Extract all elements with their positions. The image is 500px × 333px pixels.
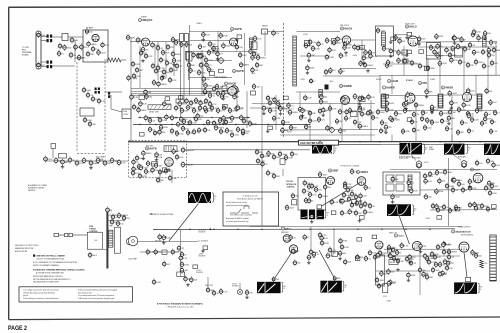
capacitor C23 [142,46,144,53]
capacitor C202 [443,204,445,211]
capacitor C136 [446,125,448,132]
test point diamond TP1 [218,57,224,63]
capacitor C36 [206,62,208,69]
capacitor C1212 [485,111,487,118]
junction [283,124,284,125]
svg-text:.0047: .0047 [430,68,436,70]
resistor R26 [305,42,307,49]
svg-text:4.7K: 4.7K [487,119,492,121]
resistor R36 [430,44,432,51]
width area capacitor [408,179,410,186]
resistor R21 [208,66,210,73]
resistor R107 [273,154,275,161]
capacitor C58 [398,49,400,56]
video area resistor [488,47,490,54]
IF part [176,63,178,70]
capacitor C83 [183,118,185,125]
capacitor C10 [83,87,85,94]
junction [459,141,460,142]
capacitor C110 [269,107,271,114]
stub [333,229,335,250]
IF part [167,44,169,51]
junction [357,229,358,230]
capacitor C96 [215,124,217,131]
RF input coil T1 [62,34,68,41]
resistor R152 [439,261,441,268]
capacitor C35 [205,57,207,64]
svg-text:SOUND: SOUND [188,150,195,152]
svg-text:100K: 100K [245,131,250,133]
junction [319,141,320,142]
IF vertical wire [165,42,167,78]
video amp area capacitor [159,129,161,136]
svg-text:.0047: .0047 [395,197,401,199]
svg-text:6AT8: 6AT8 [236,69,243,73]
svg-text:1MEG: 1MEG [418,105,424,107]
osc area box [219,69,224,73]
resistor R24 [253,51,255,58]
measurement note box [19,287,133,302]
svg-text:3RD PIX IF: 3RD PIX IF [340,25,350,27]
osc area resistor [202,31,204,38]
det wire [394,34,409,36]
osc wire [190,40,231,42]
junction [171,124,172,125]
svg-text:2.2K: 2.2K [121,162,126,164]
capacitor C5 [81,44,83,51]
capacitor C133 [413,127,415,134]
resistor R43 [221,93,223,100]
crt area ground [163,241,165,243]
svg-text:4.7K: 4.7K [428,181,433,183]
video amp area capacitor [180,116,182,123]
IF3 area ground [308,59,310,61]
box 470 [251,91,256,95]
svg-text:8.2K: 8.2K [431,262,436,264]
svg-text:2.2K: 2.2K [354,171,359,173]
capacitor C25 [172,36,174,43]
coil box L6 [332,39,337,45]
tube V4 converter [230,86,239,95]
video part [469,42,471,49]
crt area box [193,265,198,269]
vert afc area ground [339,257,341,259]
capacitor C178 [310,249,312,256]
sync2 area capacitor [484,116,486,123]
wire y210 [430,209,497,211]
wire [386,95,405,97]
balun core L1b [50,35,52,38]
B+ boost bus wire [153,228,455,231]
svg-text:FREQUENCY OF TEST POINTS: FREQUENCY OF TEST POINTS [15,245,38,247]
svg-text:.0047: .0047 [329,57,335,59]
video area resistor [473,29,475,36]
video amp area box [178,96,183,100]
oscillogram photo P10 [454,282,477,294]
wire [105,91,122,93]
svg-text:470K: 470K [405,131,410,133]
svg-text:.0047: .0047 [228,122,234,124]
svg-text:470K: 470K [184,264,189,266]
coil L12 [478,95,482,108]
capacitor C88 [243,118,245,125]
connecting wire [280,134,375,136]
vert osc area capacitor [344,183,346,190]
sync area ground [280,112,282,114]
video area resistor [418,36,420,43]
resistor R139 [452,187,454,194]
sync area ground [267,130,269,132]
sync2 area resistor [468,112,470,119]
capacitor C116 [329,105,331,112]
capacitor C48 [326,37,328,44]
sync area capacitor [320,93,322,100]
RF amp shield box [83,30,108,62]
tuner lead part [123,215,125,222]
capacitor C147 [145,168,147,175]
resistor R90 [381,119,383,126]
svg-text:.0047: .0047 [380,112,386,114]
video area ground [418,42,420,44]
vert osc area capacitor [342,198,344,205]
resistor R121 [369,203,371,210]
vert osc area ground [360,199,362,201]
svg-text:8.2K: 8.2K [371,97,376,99]
callout box P10 [466,277,471,281]
tube label V11 [382,86,385,89]
balun core L2a [47,61,49,64]
vertical wire [139,46,141,88]
section divider bus [128,141,500,143]
junction [229,117,230,118]
capacitor C173 [341,210,343,217]
svg-text:1MEG: 1MEG [146,153,152,155]
junction [261,229,262,230]
vert out area box [387,249,392,253]
capacitor C153 [291,151,293,158]
vertical stub [361,40,363,63]
connecting wire [154,46,156,65]
capacitor C168 [343,192,345,199]
capacitor C3 [71,37,73,44]
svg-text:2.2K: 2.2K [160,68,165,70]
oscillogram photo P4 [484,144,500,155]
capacitor C31 [153,79,155,86]
svg-text:VERT: VERT [429,147,433,149]
bracket P3 [466,144,467,153]
height control box [389,259,398,264]
svg-text:100K: 100K [401,52,406,54]
resistor R89 [354,119,356,126]
horiz part [448,254,450,261]
tube V23 vert out [412,241,421,250]
tuner box bottom dash [77,153,105,155]
vert out area capacitor [444,258,446,265]
vert osc area capacitor [349,208,351,215]
capacitor C101 [368,94,370,101]
coil L11 [439,95,443,107]
capacitor C218 [310,78,312,84]
svg-text:4.5MC: 4.5MC [430,79,436,81]
capacitor C119 [290,124,292,131]
svg-text:2.2K: 2.2K [444,121,449,123]
resistor R95 [431,119,433,126]
wire [121,59,126,61]
svg-text:470K: 470K [324,243,329,245]
capacitor C82 [171,114,173,121]
bracket P8 [343,282,344,292]
vert afc area capacitor [321,235,323,242]
svg-text:470K: 470K [427,256,432,258]
tuner lead part [117,220,119,227]
wire from bar [108,214,128,216]
junction [439,141,440,142]
connecting wire [299,92,301,108]
sync area capacitor [281,127,283,134]
balun core L2b [50,61,52,64]
balun core L1a [47,35,49,38]
oscillogram photo P8 [320,281,341,293]
IF part [157,65,159,72]
resistor R88 [367,110,369,117]
video area ground [484,37,486,39]
capacitor C6 [88,41,90,48]
source arrow 1 [208,228,212,230]
capacitor C34 [193,52,195,59]
diagonal lead P7 [274,250,294,280]
connecting wire [202,62,204,85]
tube callout hexagon V13 6CG7 [416,161,422,169]
video area capacitor [484,30,486,37]
diagonal lead P8 [319,250,335,278]
svg-text:CONTROL: CONTROL [286,187,294,189]
capacitor C19 [111,157,113,164]
vert osc area capacitor [324,184,326,191]
note bullet [33,255,35,257]
sound area capacitor [156,151,158,158]
svg-text:B+ SOURCE: B+ SOURCE [199,240,208,242]
connecting wire [370,100,372,141]
capacitor C53 [360,60,362,67]
connecting wire [309,112,311,141]
stub [310,227,312,250]
svg-text:.0047: .0047 [380,30,386,32]
resistor R93 [411,119,413,126]
svg-text:8.2K: 8.2K [276,118,281,120]
capacitor C181 [344,259,346,266]
capacitor C63 [446,47,448,54]
resistor R133 [181,261,183,268]
osc area resistor [199,43,201,50]
video amp area capacitor [204,105,206,112]
capacitor C72 [195,97,197,104]
resistor R129 [369,249,371,256]
capacitor C174 [364,209,366,216]
svg-text:4.7K: 4.7K [242,55,247,57]
capacitor C8 [102,42,104,49]
resistor R123 [273,173,275,180]
horiz part [424,253,426,260]
capacitor C1210 [467,110,469,117]
svg-text:100K: 100K [389,103,394,105]
resistor R52 [229,107,231,114]
capacitor C212 [443,241,445,248]
B+ bus wire [138,117,250,119]
capacitor C66 [427,65,429,72]
balun core L1d [50,39,52,42]
junction [479,141,480,142]
transformer T5 [438,94,443,108]
svg-text:2.2K: 2.2K [414,191,419,193]
capacitor C183 [374,254,376,261]
sync area resistor [280,105,282,112]
thermistor box [51,144,56,149]
sound area ground [156,158,158,160]
tuner output box [122,109,131,119]
video part [467,62,469,69]
svg-text:100K: 100K [346,99,351,101]
svg-text:1MEG: 1MEG [367,212,373,214]
svg-text:2.2K: 2.2K [288,157,293,159]
sync area box [284,96,289,100]
IF3 area capacitor [363,54,365,61]
capacitor C195 [436,169,438,176]
sync2 area ground [405,107,407,109]
delay line [148,105,171,110]
capacitor C44 [252,67,254,74]
svg-text:.0047: .0047 [442,63,448,65]
sync2 area capacitor [448,115,450,122]
svg-text:SOURCE: SOURCE [196,272,203,274]
capacitor C150 [256,149,258,156]
svg-text:470K: 470K [439,36,444,38]
resistor R117 [348,196,350,203]
row2 wire a [131,88,237,90]
stub [236,89,238,106]
callout box [317,205,321,209]
video amp area box [140,133,145,137]
vertical wire IF3 [188,42,190,81]
junction [213,229,214,230]
video amp area capacitor [145,115,147,122]
IF vertical wire [173,42,175,76]
connecting wire [329,103,331,130]
svg-text:1MEG: 1MEG [322,196,328,198]
width area capacitor [438,178,440,185]
junction [405,229,406,230]
osc coil core c [95,91,97,94]
sync2 area capacitor [426,88,428,95]
resistor R20 [198,53,200,60]
resistor R34 [461,36,463,43]
vert stub [426,58,428,70]
capacitor C98 [237,126,239,133]
resistor R15 [188,62,190,69]
tube label V12 [441,86,444,89]
resistor R510 [249,120,251,127]
bracket P5 [212,193,213,202]
video area box [407,50,412,54]
svg-text:1MEG: 1MEG [175,54,181,56]
svg-text:4.7K: 4.7K [452,210,457,212]
switch detail drawing [230,209,258,213]
resistor R37 [437,52,439,59]
connecting wire [131,95,205,97]
capacitor C127 [440,110,442,117]
svg-text:SOURCE: SOURCE [232,286,239,288]
junction [379,141,380,142]
AGC keyer label box [299,140,339,145]
sync2 area resistor [426,117,428,124]
capacitor C117 [339,108,341,115]
resistor R94 [421,116,423,123]
capacitor C33 [208,49,210,56]
svg-text:8.2K: 8.2K [148,56,153,58]
coil L10 [382,95,386,107]
video part [475,59,477,66]
video part [482,49,484,56]
capacitor C194 [424,173,426,180]
svg-text:2.2K: 2.2K [105,45,110,47]
sync2 area capacitor [385,124,387,131]
svg-text:100K: 100K [208,110,213,112]
tube label V17 [356,170,359,173]
capacitor C4 [75,44,77,51]
capacitor C143 [182,161,184,168]
junction [339,141,340,142]
capacitor C32 [209,41,211,48]
video amp area capacitor [237,104,239,111]
resistor R116 [347,187,349,194]
capacitor C175 [267,170,269,177]
capacitor C187 [178,245,180,252]
width area capacitor [425,193,427,200]
svg-text:IF AMP: IF AMP [141,16,148,19]
mixer coupling box [262,29,268,34]
video amp area capacitor [240,114,242,121]
sync2 area capacitor [489,99,491,106]
svg-text:100K: 100K [310,68,315,70]
IF3 area capacitor [340,52,342,59]
horiz part [432,267,434,274]
svg-text:To Verify a pre-set: To Verify a pre-set [242,195,258,198]
svg-text:8.2K: 8.2K [391,283,396,285]
svg-text:Push Button Switch for MWCO: Push Button Switch for MWCO [237,198,263,201]
capacitor C80 [236,105,238,112]
resistor R42 [209,92,211,99]
sync2 area capacitor [449,90,451,97]
resistor R32 [364,62,366,69]
capacitor C86 [219,117,221,124]
wire [150,41,181,43]
capacitor C87 [231,115,233,122]
svg-text:V LIN: V LIN [383,296,386,298]
connecting wire [189,31,232,33]
box 6800 [252,42,258,50]
tube V18 vert AFC [283,235,291,243]
tube V1 RF amp [92,34,99,41]
ground [162,75,164,77]
capacitor C129 [458,106,460,113]
bracket P7 [282,283,283,293]
video amp area capacitor [145,89,147,96]
capacitor C119 [359,105,361,112]
vert out area capacitor [442,241,444,248]
resistor R62 [176,130,178,137]
svg-text:1MEG: 1MEG [496,50,500,52]
resistor R122 [355,210,357,217]
resistor R39 [398,57,400,64]
